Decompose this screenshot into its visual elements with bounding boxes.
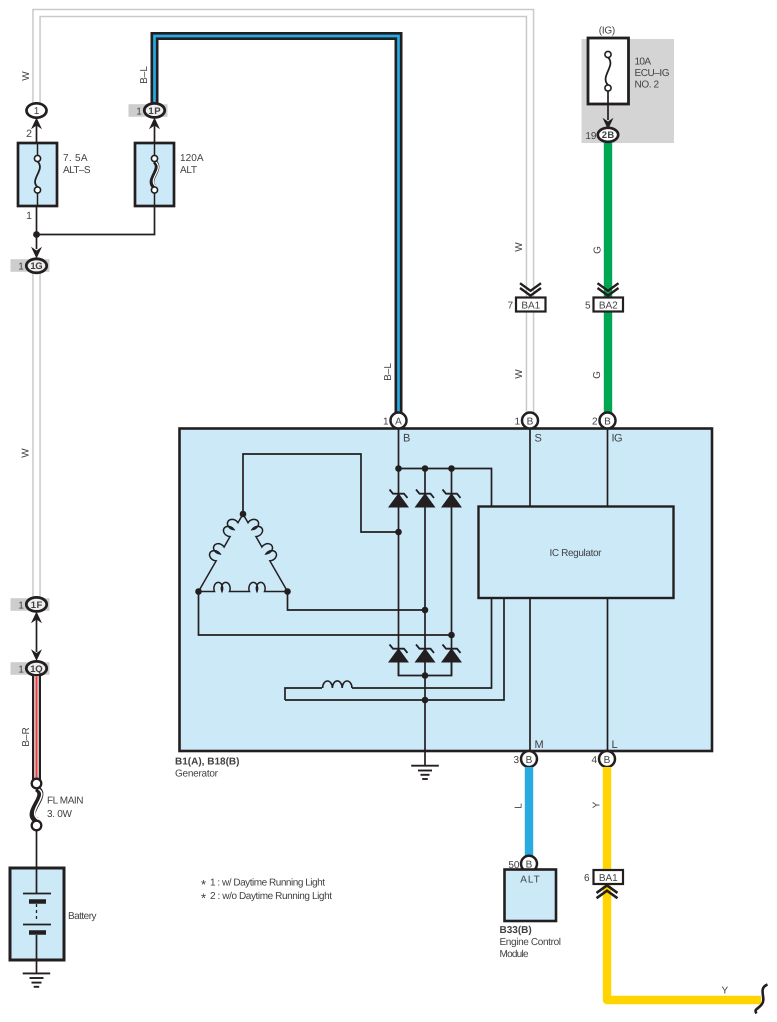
svg-text:FL MAIN: FL MAIN bbox=[47, 796, 84, 807]
svg-text:1: 1 bbox=[18, 601, 24, 612]
wire fusible link to battery bbox=[36, 830, 38, 868]
connector BA1 bottom bbox=[584, 870, 623, 884]
connector BA1 with chevron bbox=[520, 283, 541, 295]
connector circle B pin50 (ECM ALT) bbox=[508, 856, 537, 872]
wire S column into IC bbox=[529, 428, 531, 506]
connector 1Q bbox=[11, 661, 50, 675]
fuse 120A ALT bbox=[135, 143, 204, 206]
generator box B1(A) B18(B) bbox=[180, 429, 713, 752]
svg-text:B–L: B–L bbox=[383, 363, 394, 381]
node col1 tap bbox=[395, 529, 402, 536]
battery bbox=[10, 868, 97, 960]
svg-text:B: B bbox=[526, 755, 533, 766]
svg-text:1F: 1F bbox=[31, 600, 43, 611]
ECM ALT box B33(B) bbox=[505, 870, 557, 922]
svg-text:19: 19 bbox=[585, 131, 597, 142]
svg-text:ALT: ALT bbox=[520, 875, 540, 886]
wire fuse to 2B bbox=[607, 91, 609, 120]
node top rail col1 bbox=[395, 465, 402, 472]
stator delta winding L3 right side bbox=[243, 514, 288, 592]
svg-text:BA2: BA2 bbox=[599, 301, 618, 312]
svg-text:IC Regulator: IC Regulator bbox=[550, 548, 603, 559]
node col3 tap bbox=[448, 632, 455, 639]
connector circle B pin1 (generator S) bbox=[514, 413, 538, 429]
rotor field coil wire lower bbox=[285, 598, 504, 700]
svg-text:Engine Control: Engine Control bbox=[500, 937, 562, 948]
node delta bottom-right bbox=[284, 588, 291, 595]
svg-text:BA1: BA1 bbox=[521, 301, 540, 312]
svg-text:W: W bbox=[21, 71, 32, 81]
connector 1P bbox=[129, 103, 168, 117]
fuse 7.5A ALT-S bbox=[18, 143, 91, 206]
svg-text:NO. 2: NO. 2 bbox=[635, 80, 660, 91]
rotor field coil L1 bbox=[323, 681, 352, 688]
fuse 10A ECU-IG NO.2 bbox=[588, 38, 670, 104]
connector BA2 with chevron bbox=[598, 283, 619, 295]
connector 2B bbox=[585, 128, 618, 142]
svg-text:BA1: BA1 bbox=[599, 873, 618, 884]
stator delta winding L2 left side bbox=[199, 514, 244, 592]
wire G upper (2B to BA2) bbox=[604, 141, 612, 298]
diode D5 (lower zener col2) bbox=[416, 645, 435, 663]
svg-text:Module: Module bbox=[500, 949, 529, 960]
svg-text:2B: 2B bbox=[602, 130, 615, 141]
svg-text:B–L: B–L bbox=[139, 66, 150, 84]
wire B-R 1Q to fusible link bbox=[32, 676, 41, 780]
svg-text:B1(A), B18(B): B1(A), B18(B) bbox=[175, 757, 239, 768]
svg-text:1: 1 bbox=[34, 106, 40, 117]
wire L (blue) generator M to ECM bbox=[525, 767, 533, 857]
svg-text:IG: IG bbox=[612, 433, 623, 445]
svg-text:10A: 10A bbox=[635, 57, 652, 68]
svg-text:L: L bbox=[612, 739, 618, 751]
svg-text:ECU–IG: ECU–IG bbox=[635, 68, 670, 79]
svg-text:7: 7 bbox=[507, 301, 513, 312]
arrow up into 1P bbox=[149, 118, 160, 130]
arrow down into 2B bbox=[603, 118, 614, 130]
svg-text:W: W bbox=[21, 448, 32, 458]
wire IG column into IC bbox=[607, 428, 609, 506]
svg-text:2: 2 bbox=[592, 417, 598, 428]
wire lower diode bottom rail bbox=[399, 662, 452, 676]
fusible link FL MAIN 3.0W bbox=[32, 779, 84, 831]
wire W left branch 1G to 1F bbox=[32, 272, 41, 597]
stator delta winding L4 bottom side bbox=[199, 582, 288, 591]
connector 1F bbox=[11, 597, 50, 611]
svg-text:(IG): (IG) bbox=[599, 26, 616, 37]
svg-text:1: 1 bbox=[18, 262, 24, 273]
svg-text:B: B bbox=[604, 416, 611, 427]
connector circle B pin4 (generator L) bbox=[591, 751, 615, 767]
wire fuse ALT-S down to 1G bbox=[36, 206, 38, 249]
svg-text:B: B bbox=[403, 433, 410, 445]
svg-text:1: 1 bbox=[136, 107, 142, 118]
svg-text:*: * bbox=[201, 891, 206, 906]
node top rail col3 bbox=[448, 465, 455, 472]
svg-text:7. 5A: 7. 5A bbox=[63, 153, 88, 164]
svg-text:Battery: Battery bbox=[68, 911, 97, 922]
wire rectifier top rail to IC regulator bbox=[399, 469, 492, 507]
svg-text:A: A bbox=[395, 416, 402, 427]
rotor field coil wire left bbox=[285, 688, 322, 700]
svg-text:ALT–S: ALT–S bbox=[63, 165, 91, 176]
node delta apex bbox=[240, 511, 247, 518]
svg-text:1Q: 1Q bbox=[30, 664, 42, 675]
arrow up into oval 1 bbox=[31, 118, 42, 130]
wire W middle branch BA1 to generator S bbox=[526, 311, 535, 413]
wire delta apex to col1 bbox=[243, 454, 399, 532]
wire L column out of IC bbox=[607, 598, 609, 751]
svg-text:W: W bbox=[514, 369, 525, 379]
diode D4 (lower zener col1) bbox=[389, 645, 408, 663]
diode D3 (upper zener col3) bbox=[442, 490, 461, 508]
svg-text:5: 5 bbox=[585, 301, 591, 312]
wire B-L from 1P up over to generator B bbox=[155, 36, 399, 413]
svg-text:Y: Y bbox=[722, 986, 729, 997]
svg-text:B: B bbox=[527, 416, 534, 427]
diode D6 (lower zener col3) bbox=[442, 645, 461, 663]
wire G lower (BA2 to generator IG) bbox=[604, 311, 612, 413]
connector circle B pin3 (generator M) bbox=[513, 751, 537, 767]
svg-text:2: 2 bbox=[26, 128, 32, 140]
svg-text:Y: Y bbox=[592, 801, 603, 808]
svg-text:G: G bbox=[593, 246, 604, 254]
svg-text:M: M bbox=[535, 739, 544, 751]
diode D1 (upper zener col1) bbox=[389, 490, 408, 508]
svg-text:ALT: ALT bbox=[180, 165, 197, 176]
node col2 tap bbox=[422, 607, 429, 614]
connector circle A pin1 (generator B) bbox=[383, 413, 407, 429]
wire delta bottom-left to col3 bbox=[199, 592, 452, 636]
svg-text:2 : w/o Daytime Running Light: 2 : w/o Daytime Running Light bbox=[210, 891, 332, 902]
svg-text:1: 1 bbox=[514, 417, 520, 428]
ground battery bbox=[23, 960, 51, 987]
arrow up into 1F bbox=[31, 612, 42, 624]
node field-ground junction bbox=[422, 697, 429, 704]
node top rail col2 bbox=[422, 465, 429, 472]
svg-text:B33(B): B33(B) bbox=[500, 925, 532, 936]
wire delta bottom-right to col2 bbox=[288, 592, 426, 611]
IC Regulator U1 bbox=[479, 507, 674, 599]
wire branch junction to ALT fuse bbox=[37, 206, 155, 235]
connector 1G bbox=[11, 259, 50, 273]
svg-text:S: S bbox=[535, 433, 542, 445]
wire 1F to 1Q bbox=[36, 618, 38, 652]
node lower rail center bbox=[422, 672, 429, 679]
svg-text:4: 4 bbox=[591, 755, 597, 766]
svg-text:3: 3 bbox=[513, 755, 519, 766]
svg-text:G: G bbox=[592, 371, 603, 379]
wire W top-left rail (white wire outline) bbox=[37, 13, 531, 298]
connector oval 1 bbox=[27, 103, 47, 117]
chevron up below BA1 bbox=[597, 885, 618, 898]
wire M column out of IC bbox=[529, 598, 531, 751]
node delta bottom-left bbox=[195, 588, 202, 595]
wire column 3 bbox=[451, 469, 453, 676]
wire break squiggle bbox=[756, 985, 768, 1014]
wire column 2 (center, to ground) bbox=[424, 469, 426, 766]
rotor field coil wire upper bbox=[352, 598, 492, 688]
ground generator internal bbox=[411, 766, 439, 779]
wire Y (yellow) generator L to BA1 bbox=[603, 767, 611, 870]
svg-text:120A: 120A bbox=[180, 153, 204, 164]
svg-text:1: 1 bbox=[26, 210, 32, 222]
svg-text:1: 1 bbox=[383, 417, 389, 428]
svg-text:3. 0W: 3. 0W bbox=[47, 809, 73, 820]
svg-text:Generator: Generator bbox=[175, 769, 219, 780]
wire Y to bottom right bbox=[607, 886, 761, 1001]
svg-text:L: L bbox=[514, 803, 525, 809]
diode D2 (upper zener col2) bbox=[416, 490, 435, 508]
svg-text:1P: 1P bbox=[148, 106, 161, 117]
svg-text:1 : w/ Daytime Running Light: 1 : w/ Daytime Running Light bbox=[210, 878, 325, 889]
connector circle B pin2 (generator IG) bbox=[592, 413, 616, 429]
wire column B (rectifier column 1) bbox=[398, 428, 400, 676]
svg-text:W: W bbox=[514, 242, 525, 252]
arrow down into 1Q bbox=[31, 649, 42, 661]
junction node bbox=[33, 231, 40, 238]
fusebox panel (IG) gray bbox=[582, 39, 675, 143]
svg-text:B–R: B–R bbox=[21, 727, 32, 746]
svg-text:1: 1 bbox=[18, 665, 24, 676]
svg-text:6: 6 bbox=[584, 873, 590, 884]
svg-text:1G: 1G bbox=[30, 261, 42, 272]
svg-text:B: B bbox=[604, 755, 611, 766]
arrow down into 1G bbox=[31, 247, 42, 259]
